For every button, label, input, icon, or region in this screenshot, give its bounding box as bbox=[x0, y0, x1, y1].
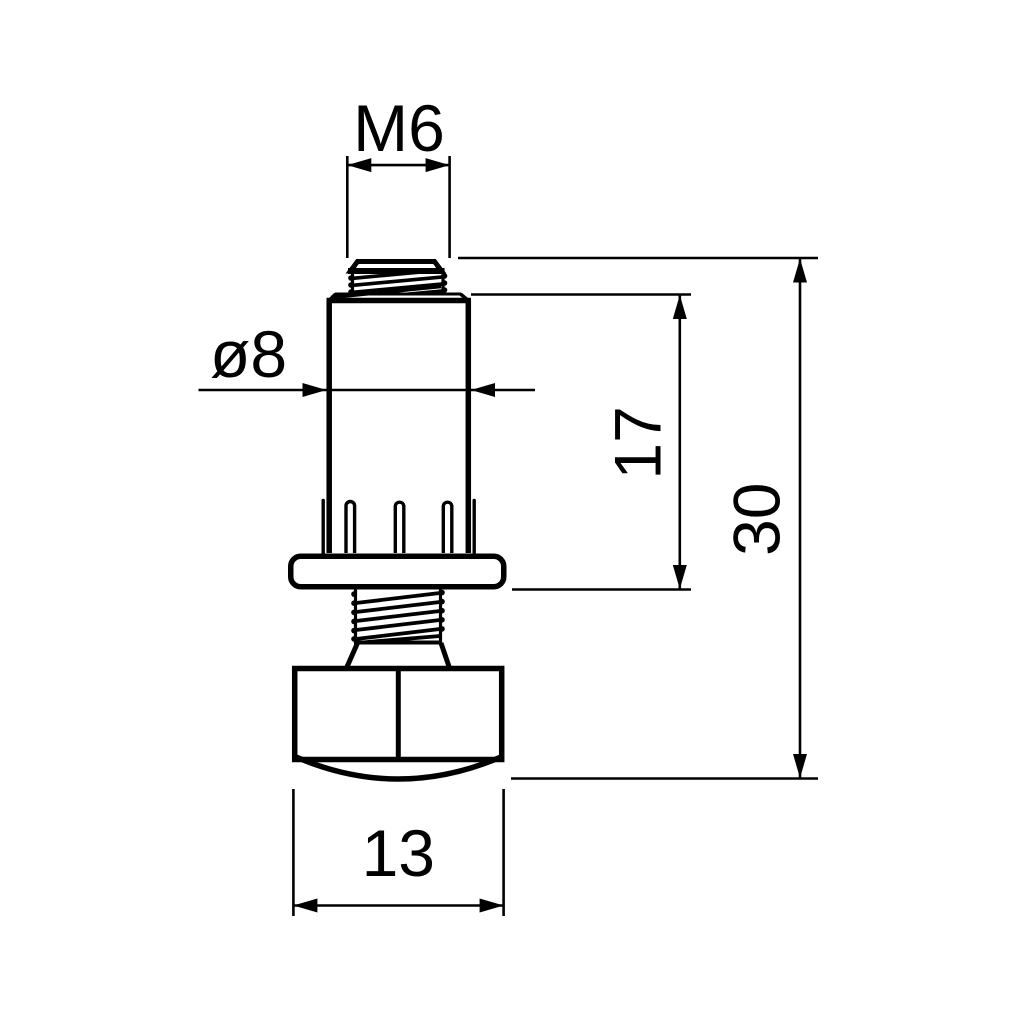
svg-text:ø8: ø8 bbox=[210, 317, 287, 391]
dimension 30 extension bottom bbox=[511, 777, 818, 780]
dimension 30 arrow bottom bbox=[793, 754, 807, 778]
flange bbox=[291, 556, 504, 587]
body fill bbox=[329, 301, 468, 554]
svg-text:13: 13 bbox=[362, 816, 435, 890]
dimension M6 arrow left bbox=[347, 158, 371, 172]
svg-text:30: 30 bbox=[720, 482, 794, 555]
body shoulder face fill bbox=[327, 294, 469, 301]
svg-text:17: 17 bbox=[601, 406, 675, 479]
dimension 30 line bbox=[799, 259, 802, 779]
dimension 13 line bbox=[293, 904, 503, 907]
stud thread run-out diagonal bbox=[331, 286, 441, 297]
dimension diameter line bbox=[199, 389, 536, 392]
stud thread right edge bbox=[441, 270, 444, 294]
dimension M6 line bbox=[347, 164, 449, 167]
lower thread bumps left bbox=[351, 591, 357, 641]
taper right bbox=[441, 643, 450, 668]
dimension diameter arrow left bbox=[303, 383, 327, 397]
lower thread bottom line bbox=[354, 641, 442, 645]
stud chamfer base thick line bbox=[348, 268, 445, 274]
body shoulder bevel left bbox=[329, 294, 335, 301]
dimension 30 extension top bbox=[458, 257, 818, 260]
body shoulder bevel right bbox=[461, 294, 469, 301]
stud thread crest bumps left bbox=[348, 275, 354, 295]
lower thread left edge bbox=[354, 590, 357, 644]
dimension 17 arrow bottom bbox=[673, 565, 687, 589]
stud thread crest bumps right bbox=[442, 273, 448, 293]
knob bottom dome bbox=[296, 757, 501, 779]
dimension 30 arrow top bbox=[793, 259, 807, 283]
dimension 13 extension right bbox=[502, 789, 505, 916]
dimension M6 extension line right bbox=[448, 156, 451, 258]
dimension M6 arrow right bbox=[426, 158, 450, 172]
body wall right bbox=[466, 301, 472, 554]
lower thread diagonals bbox=[356, 593, 440, 643]
dimension 17 extension bottom bbox=[512, 588, 691, 591]
knob body bbox=[295, 669, 502, 760]
dimension 13 arrow right bbox=[480, 899, 504, 913]
prong 2 bbox=[395, 502, 404, 553]
stud thread diagonals bbox=[353, 270, 443, 299]
body shoulder top thin line bbox=[335, 293, 461, 296]
body shoulder thick line bbox=[327, 298, 472, 304]
dimension 13 arrow left bbox=[293, 899, 317, 913]
prong 3 bbox=[443, 502, 452, 553]
dimension 17 extension top bbox=[471, 293, 691, 296]
stud top chamfer bbox=[351, 262, 442, 272]
dimension M6 extension line left bbox=[346, 156, 349, 258]
prong 1 bbox=[346, 501, 355, 553]
lower thread right edge bbox=[439, 590, 442, 644]
dimension 17 arrow top bbox=[673, 295, 687, 319]
taper left bbox=[347, 643, 358, 668]
svg-text:M6: M6 bbox=[353, 91, 445, 165]
dimension 13 extension left bbox=[292, 789, 295, 916]
knob center line bbox=[396, 669, 401, 760]
dimension diameter arrow right bbox=[471, 383, 495, 397]
lower thread bumps right bbox=[439, 590, 445, 632]
barb right bbox=[473, 501, 476, 554]
barb left bbox=[322, 501, 325, 554]
dimension 17 line bbox=[678, 295, 681, 589]
stud thread left edge bbox=[351, 270, 354, 294]
body wall left bbox=[326, 301, 332, 554]
